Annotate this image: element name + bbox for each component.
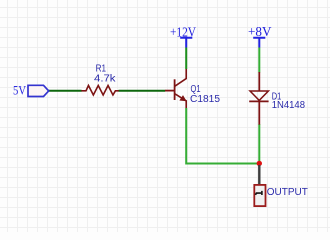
svg-text:1N4148: 1N4148 [272,100,306,111]
svg-text:+12V: +12V [170,25,196,40]
svg-text:OUTPUT: OUTPUT [267,187,308,198]
svg-text:4.7k: 4.7k [94,73,117,84]
svg-text:5V: 5V [13,84,27,98]
svg-text:+8V: +8V [248,25,272,40]
svg-text:C1815: C1815 [190,94,220,105]
